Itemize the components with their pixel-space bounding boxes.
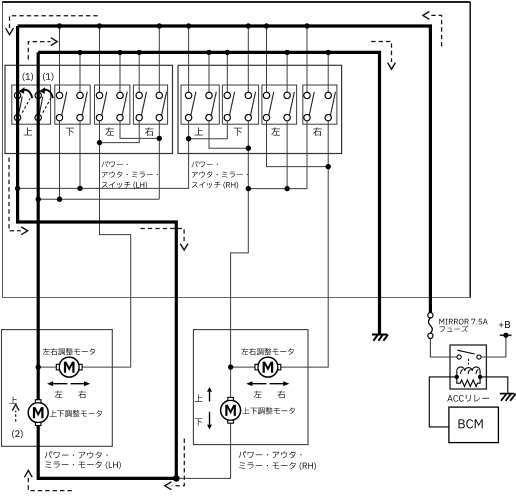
label switch LH line1 <box>102 161 128 167</box>
dashed arrow C (top-right, left) <box>423 12 442 47</box>
label (1) first <box>23 73 33 82</box>
label switch name 上 x198.7 <box>195 127 203 135</box>
label switch name 左 x275.7 <box>271 127 280 135</box>
label motor LH line2 <box>45 461 121 469</box>
switch LH-left pole1 <box>96 92 107 121</box>
wire rail1 feed x=59.5 <box>59 26 61 92</box>
junction rail1 x=266.5 <box>264 23 269 28</box>
label motor RH line1 <box>239 451 302 458</box>
label ACC relay name <box>447 395 489 402</box>
arrow RH motor left <box>246 381 266 386</box>
thick wire rail2 + ground drop <box>38 52 379 334</box>
wire rail2 feed x=328.2 <box>327 52 329 92</box>
dashed arrow F (mid, down) <box>141 229 189 251</box>
label switch LH line3 <box>102 182 147 189</box>
wire rail1 feed x=159.3 <box>158 26 160 92</box>
label LR motor label RH <box>241 348 293 355</box>
fuse MIRROR 7.5A <box>428 313 433 339</box>
wire net-A LH left-pole1 down to LR motor right terminal <box>82 121 131 367</box>
switch RH-right pole2 <box>325 92 336 121</box>
arrow LH motor left <box>47 381 67 386</box>
thick wire rail1 + fuse drop <box>18 26 431 313</box>
switch RH-up pole1 <box>185 92 195 121</box>
wire LH down-pole2 bottom to y188 <box>79 121 81 189</box>
wire long horizontal net at y=298 <box>2 297 470 299</box>
wire RH down-pole2 down jog to motors <box>231 121 249 398</box>
wire RH LR-motor left terminal <box>231 366 256 368</box>
switch LH-right pole2 <box>156 92 167 121</box>
junction rail2 x=139.2 <box>137 50 142 55</box>
relay box ACC <box>450 345 486 389</box>
wire rail2 feed x=120.0 <box>119 52 121 92</box>
junction rail2 x=328.2 <box>326 50 331 55</box>
thick wire path1 left <box>18 26 177 478</box>
wire RH left-pole2 bottom to y188.6 <box>286 121 288 189</box>
switch RH-right pole1 <box>304 92 315 121</box>
wire rail1 feed x=248.3 <box>247 26 249 92</box>
wire RH right-pole2 down to LR motor right terminal <box>281 121 329 367</box>
wire loop-top <box>2 1 470 3</box>
junction rail1 x=99.5 <box>97 23 102 28</box>
switch LH-up pole1 (actuated) <box>14 87 32 121</box>
dashed arrow G (bottom-left, up) <box>24 470 71 490</box>
wire relay coil to ground <box>480 377 508 394</box>
arrow RH motor up <box>207 387 212 402</box>
ground (mirror motors) <box>372 335 388 341</box>
wire RH UD-motor bottom to junction <box>176 423 230 478</box>
junction (230.6,367.1) <box>228 364 233 369</box>
switch RH-up pole2 <box>206 92 217 121</box>
label switch name 左 x109.7 <box>105 127 114 135</box>
power outer mirror switch RH box <box>178 65 342 153</box>
wire rail1 feed x=99.5 <box>99 26 101 92</box>
dashed arrow A (top-left, down) <box>6 16 98 35</box>
label +B <box>499 321 510 328</box>
switch RH-down pole1 <box>224 92 235 121</box>
junction (328.2,166.6) <box>326 164 331 169</box>
junction (80.0,188.4) <box>77 186 82 191</box>
switch cell LH-up <box>12 85 51 124</box>
label switch RH line3 <box>192 182 238 189</box>
wire relay coil to BCM <box>429 377 457 427</box>
junction rail1 x=248.3 <box>246 23 251 28</box>
wire RH up-pole2 to y148.2 <box>209 121 248 148</box>
wire rail1 feed x=266.5 <box>266 26 268 92</box>
junction bottom common <box>173 475 180 482</box>
label UD motor label LH <box>50 410 102 417</box>
wire LH left-pole2 to right-pole2 y138.4 <box>120 121 159 139</box>
motor M LH left-right adjust <box>56 357 82 377</box>
arrow RH motor down <box>207 412 212 430</box>
wire loop-right <box>469 2 471 298</box>
power outer mirror motor LH box <box>2 330 113 447</box>
label right label LH <box>78 391 86 399</box>
wire rail2 feed x=80.0 <box>79 52 81 92</box>
wire rail2 feed x=139.2 <box>138 52 140 92</box>
switch LH-up pole2 (actuated) <box>35 87 53 121</box>
wire relay contact to +B <box>481 335 506 357</box>
junction rail2 x=227.3 <box>225 50 230 55</box>
junction (287.1,188.6) <box>284 186 289 191</box>
label fuse name <box>439 319 487 325</box>
switch RH-down pole2 <box>245 92 256 121</box>
label switch name 上 x27.9 <box>24 127 32 135</box>
thick wire UD motor bottom to junction <box>38 425 176 478</box>
junction rail1 x=159.3 <box>157 23 162 28</box>
wire rail2 feed x=287.1 <box>286 52 288 92</box>
arrow RH motor right <box>270 381 290 386</box>
ground (ACC relay) <box>500 394 516 401</box>
switch cell RH-up <box>181 85 219 124</box>
wire rail2 feed x=227.3 <box>226 52 228 92</box>
label UD motor label RH <box>243 407 295 414</box>
junction (17.6,188.4) <box>15 186 20 191</box>
label motor LH line1 <box>45 451 108 458</box>
wire rail1 feed x=307.0 <box>306 26 308 92</box>
dashed arrow H (bottom-mid, left) <box>165 439 185 490</box>
motor M RH up-down adjust <box>221 397 241 423</box>
junction relay coil right <box>478 375 482 379</box>
switch LH-down pole1 <box>56 92 67 121</box>
junction (248.3,188.6) <box>246 186 251 191</box>
label motor RH line2 <box>239 462 316 470</box>
junction rail2 x=209.0 <box>206 50 211 55</box>
junction rail2 x=287.1 <box>284 50 289 55</box>
junction rail1 x=188.6 <box>186 23 191 28</box>
label (1) second <box>43 73 53 82</box>
dashed arrow B (to right) <box>28 38 57 60</box>
label left label RH <box>254 391 262 398</box>
label up label RH motor <box>195 395 203 402</box>
arrow LH motor right <box>71 381 91 386</box>
BCM box <box>449 407 499 443</box>
wire RH y188.6 horizontal <box>248 121 307 189</box>
label switch LH line2 <box>102 171 158 177</box>
wire LH LR-motor left terminal <box>38 366 56 368</box>
label fuse name jp <box>440 326 469 333</box>
switch LH-left pole2 <box>117 92 128 121</box>
label down label RH motor <box>195 418 203 425</box>
junction (188.6,138.7) <box>186 136 191 141</box>
wire net-A join y142.6 <box>100 121 140 143</box>
switch cell LH-left <box>95 85 130 124</box>
junction (38.2,367.1) <box>36 364 41 369</box>
label switch name 下 x237.8 <box>234 128 242 136</box>
switch cell LH-right <box>133 85 167 124</box>
junction (99.5,142.6) <box>97 140 102 145</box>
junction (38.2,199.2) <box>36 197 41 202</box>
label LR motor label LH <box>43 348 95 355</box>
label (2) label <box>12 430 22 439</box>
relay contact <box>457 350 481 364</box>
switch cell RH-right <box>303 85 337 124</box>
thick wire path2 through UD motor <box>37 52 40 399</box>
terminal +B <box>500 333 512 338</box>
junction rail2 x=80.0 <box>77 50 82 55</box>
motor M LH up-down adjust <box>28 400 48 426</box>
wire RH left-pole1 to y166.6 <box>267 121 329 167</box>
label switch name 右 x317.5 <box>313 127 322 136</box>
motor M RH left-right adjust <box>255 357 281 377</box>
relay coil with resistor <box>457 367 480 387</box>
junction relay coil left <box>455 375 459 379</box>
label switch RH line1 <box>192 161 218 167</box>
switch RH-left pole2 <box>284 92 295 121</box>
label switch name 右 x149.3 <box>145 127 154 136</box>
label switch RH line2 <box>192 171 248 177</box>
label switch name 下 x69.8 <box>66 128 74 136</box>
switch RH-left pole1 <box>263 92 274 121</box>
switch LH-down pole2 <box>77 92 88 121</box>
switch LH-right pole1 <box>136 92 147 121</box>
junction rail1 x=59.5 <box>57 23 62 28</box>
wire LH down-pole1 bottom to y199 <box>59 121 61 199</box>
dashed arrow D (down) <box>371 42 395 70</box>
junction rail2 x=120.0 <box>117 50 122 55</box>
wire RH up-pole1 bottom stub <box>188 121 190 139</box>
wire fuse to relay contact <box>430 338 457 357</box>
junction rail1 x=307.0 <box>304 23 309 28</box>
label BCM <box>459 419 483 428</box>
dashed arrow E (left-mid, right) <box>9 158 28 235</box>
wire RH up-pole1/down-pole1 join y138.7 <box>189 121 228 139</box>
wire loop-left <box>2 2 4 298</box>
power outer mirror motor RH box <box>193 330 308 445</box>
wire net-B y199 horizontal <box>38 198 159 200</box>
dashed arrow I (LH motor up) <box>12 404 19 421</box>
label right label RH <box>278 391 286 399</box>
wire LH right-pole2 down to y199 <box>158 121 160 199</box>
junction (248.3,148.2) <box>246 146 251 151</box>
label up label LH motor <box>9 397 17 404</box>
junction (159.3,138.4) <box>157 136 162 141</box>
junction (59.5,199.2) <box>57 197 62 202</box>
switch cell RH-left <box>262 85 297 124</box>
wire rail1 feed x=188.6 <box>188 26 190 92</box>
switch cell RH-down <box>222 85 258 124</box>
switch cell LH-down <box>55 85 90 124</box>
power outer mirror switch LH box <box>5 65 173 153</box>
wire y188 long horizontal to RH up-pole1 <box>18 139 189 189</box>
wire rail2 feed x=209.0 <box>208 52 210 92</box>
label left label LH <box>55 391 63 398</box>
